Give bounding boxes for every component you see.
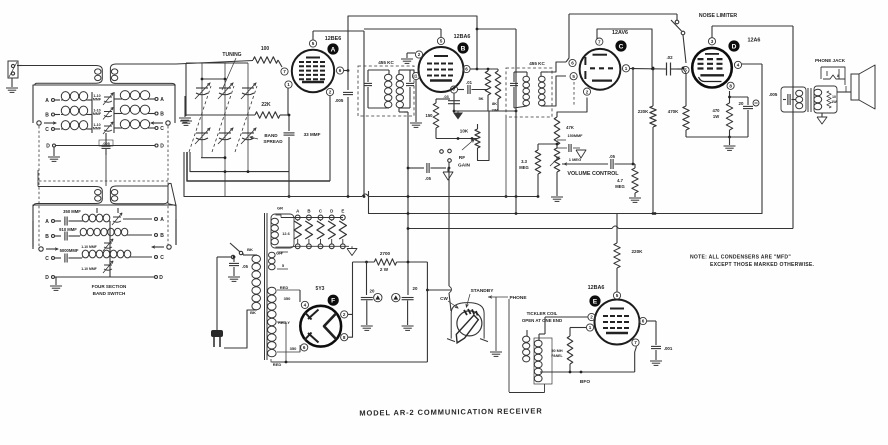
cap .005 mid — [99, 133, 113, 155]
badge F — [328, 295, 339, 306]
bfo box — [534, 338, 552, 384]
tuning cap col3 wire — [247, 63, 249, 172]
arrow ground rfgain — [443, 168, 453, 180]
cap .02 — [666, 55, 682, 76]
svg-text:5000MMF: 5000MMF — [60, 248, 79, 253]
ground V2 cathode — [453, 111, 463, 120]
svg-text:NOTE: ALL CONDENSERS ARE "MFD": NOTE: ALL CONDENSERS ARE "MFD" — [690, 255, 791, 261]
svg-text:E: E — [341, 209, 344, 214]
wire V4 pin4 — [742, 64, 762, 196]
svg-text:6: 6 — [303, 345, 306, 350]
svg-text:455 KC: 455 KC — [529, 61, 545, 66]
cap 150MMF — [557, 134, 583, 154]
bus B+ y227 — [407, 226, 793, 230]
svg-text:B: B — [461, 45, 466, 52]
IF2 primary coil — [514, 72, 530, 108]
cap 350MMF — [45, 209, 82, 226]
wire V2 pin6 — [471, 68, 479, 71]
pin 3 V4 — [708, 38, 715, 45]
pot 1MEG volume — [550, 145, 560, 172]
wire V4 pin3 top — [712, 26, 793, 38]
svg-text:7: 7 — [598, 39, 601, 44]
pin 1 V2 — [412, 72, 419, 79]
svg-text:E: E — [593, 298, 598, 305]
label RED low — [271, 359, 281, 367]
svg-text:455 KC: 455 KC — [378, 60, 394, 65]
wire T2 into oscbox — [97, 208, 118, 213]
label 350 low — [277, 346, 300, 352]
cap .005 plate — [335, 92, 353, 196]
svg-text:1: 1 — [625, 66, 628, 71]
wire top line C to switch — [569, 13, 677, 15]
label CW — [440, 296, 458, 308]
resistor 5K — [478, 69, 490, 111]
heater switch contact B low — [307, 244, 312, 249]
heater resistor D — [328, 220, 335, 244]
rf gain terminals — [440, 149, 452, 169]
wire E pin7 — [635, 347, 637, 373]
heater switch contact C low — [318, 244, 323, 249]
heater resistor B — [305, 220, 312, 244]
label 12AV6 — [612, 30, 628, 36]
pin 1 V6 — [586, 324, 593, 331]
osc coil C — [82, 250, 164, 261]
svg-text:NOISE LIMITER: NOISE LIMITER — [699, 13, 738, 19]
IF2 shield box — [506, 68, 552, 117]
label 12BA6 V2 — [454, 34, 471, 40]
antenna terminal block — [8, 61, 18, 78]
IF1 primary coil — [368, 70, 392, 108]
ground T3 — [817, 113, 827, 124]
svg-text:150MMF: 150MMF — [568, 134, 584, 138]
xfmr T4 HV winding — [268, 287, 277, 357]
svg-text:A: A — [160, 217, 164, 223]
gang link col1 dashed — [189, 86, 211, 152]
badge A — [327, 43, 338, 54]
RF coil B1 — [61, 106, 92, 115]
svg-text:TICKLER COIL: TICKLER COIL — [527, 311, 558, 316]
svg-text:350: 350 — [284, 296, 291, 301]
cap .01 — [458, 80, 488, 94]
variable cap C3a — [241, 83, 256, 99]
wire antenna to T1 — [18, 65, 22, 67]
tuning cap col1 wire — [201, 63, 203, 158]
svg-text:20: 20 — [739, 101, 744, 106]
cap 20 filter 1 — [361, 262, 382, 325]
svg-text:22K: 22K — [261, 102, 271, 108]
resistor 10K rf gain — [436, 111, 489, 161]
svg-text:5K: 5K — [478, 96, 483, 101]
svg-text:BK: BK — [250, 310, 256, 315]
resistor 220K — [638, 67, 656, 214]
label 12A6 — [748, 38, 761, 44]
variable cap C1b — [195, 128, 210, 144]
svg-text:2: 2 — [590, 315, 593, 320]
label Y tap — [277, 250, 288, 255]
svg-text:10K: 10K — [460, 129, 469, 134]
label phone jack — [815, 58, 846, 63]
svg-text:B: B — [307, 209, 310, 214]
cap 910MMF — [45, 227, 80, 241]
wire pin6 V5 — [299, 345, 301, 352]
cap 33MMF — [284, 115, 321, 172]
IF1 sec bottom lead — [399, 108, 408, 295]
svg-text:4: 4 — [304, 303, 307, 308]
tube V6 12BA6 envelope — [595, 300, 640, 345]
wire HV top to pin4 — [299, 290, 301, 302]
svg-text:12A6: 12A6 — [748, 38, 761, 44]
svg-text:910 MMF: 910 MMF — [59, 227, 77, 232]
cap 5000MMF — [45, 248, 82, 263]
wire D cathode bottom — [686, 136, 748, 139]
svg-text:.01: .01 — [466, 80, 472, 85]
RF coil row C left label — [45, 127, 60, 133]
ground vol pot — [551, 172, 563, 201]
svg-text:SPREAD: SPREAD — [263, 139, 283, 144]
heater winding box — [271, 214, 294, 248]
svg-text:C: C — [45, 127, 49, 133]
tube V3 12AV6 envelope — [580, 49, 621, 90]
pin 2 V2 — [415, 51, 422, 58]
svg-text:C: C — [619, 43, 624, 50]
svg-text:2: 2 — [586, 89, 589, 94]
svg-text:1: 1 — [415, 74, 418, 79]
svg-text:8K: 8K — [492, 101, 497, 106]
variable cap C3b — [241, 128, 256, 144]
svg-text:220K: 220K — [638, 109, 649, 114]
svg-text:D: D — [330, 209, 333, 214]
label STANDBY — [466, 288, 494, 307]
wire T1 into box — [0, 0, 1, 1]
svg-text:5: 5 — [312, 41, 315, 46]
svg-text:PANEL: PANEL — [551, 354, 562, 358]
osc interior vertical — [109, 221, 111, 277]
pin 1 V1 — [285, 81, 292, 88]
pin 7 V2 — [450, 86, 457, 93]
wire C pin2 down — [557, 98, 587, 118]
svg-text:.005: .005 — [769, 92, 778, 97]
svg-text:1-10 MMF: 1-10 MMF — [81, 267, 96, 271]
osc coil A — [82, 213, 164, 225]
RF coil row B left label — [45, 113, 60, 119]
wire bplus to switch — [427, 289, 451, 291]
resistor 100 — [253, 46, 282, 67]
title text — [359, 406, 542, 417]
gang link col2 dashed — [212, 86, 234, 152]
IF2 secondary coil — [539, 72, 549, 106]
heater resistor E — [339, 220, 346, 244]
pin 6 V5 — [301, 344, 308, 351]
IF1 shield box — [358, 66, 414, 116]
label RED-Y — [277, 321, 290, 362]
resistor 470 1W — [713, 91, 733, 137]
pin 2 V6 — [588, 313, 595, 320]
svg-text:1W: 1W — [831, 100, 837, 104]
badge C — [615, 40, 626, 51]
svg-text:MMF: MMF — [93, 127, 102, 131]
label PHONE — [488, 295, 527, 301]
tube V2 12BA6 envelope — [419, 47, 464, 92]
label RED tap — [280, 285, 289, 290]
heater resistor C — [317, 220, 324, 244]
IF2 primary cap — [510, 72, 518, 108]
label BFO — [580, 379, 590, 385]
wire V1 pin5 up — [313, 31, 364, 40]
heater switch contact E low — [340, 244, 345, 249]
svg-text:D: D — [45, 275, 49, 281]
ground filter1 — [361, 326, 373, 330]
label 12BA6 V6 — [588, 285, 605, 291]
svg-text:B: B — [160, 112, 164, 118]
tube V5 5Y3 envelope — [300, 306, 341, 347]
svg-text:100: 100 — [261, 46, 270, 52]
wire gang bus y79 — [201, 78, 227, 81]
svg-text:C: C — [160, 126, 164, 132]
pin 6 V2 — [463, 65, 470, 72]
osc coil B — [80, 228, 164, 239]
label volume control — [567, 171, 619, 177]
wire B+ y262 — [353, 261, 428, 264]
heater switch contact A low — [295, 244, 300, 249]
svg-text:C: C — [45, 256, 49, 262]
label band spread — [250, 133, 283, 144]
label noise limiter — [699, 13, 738, 19]
svg-text:D: D — [732, 43, 737, 50]
pin 2 V1 — [326, 88, 333, 95]
wire top rect outer — [348, 16, 477, 90]
svg-text:1 MEG: 1 MEG — [569, 157, 581, 162]
cap .05 line — [217, 256, 249, 276]
wire bfo cathode — [540, 371, 635, 374]
svg-text:6: 6 — [339, 68, 342, 73]
label GR low — [276, 251, 282, 256]
output transformer T3 pri — [796, 90, 803, 109]
RF coil box — [33, 85, 175, 123]
ground line cap — [228, 277, 240, 281]
cap .05 rfgain — [407, 163, 446, 181]
svg-text:RED: RED — [273, 362, 282, 367]
dashed gang line right — [167, 126, 169, 245]
svg-text:6: 6 — [465, 67, 468, 72]
T3 core — [808, 88, 811, 112]
pin 1 V3 — [622, 65, 629, 72]
svg-text:A: A — [160, 97, 164, 103]
cap .001 — [647, 321, 673, 360]
pin 6 V3 — [569, 59, 576, 66]
svg-text:350: 350 — [290, 346, 297, 351]
dashed linkage horizontal — [39, 180, 168, 182]
svg-text:RF: RF — [459, 155, 465, 161]
svg-text:MEG: MEG — [615, 184, 625, 189]
svg-text:2W: 2W — [492, 108, 498, 113]
svg-text:.05: .05 — [609, 154, 615, 159]
resistor 150 — [426, 99, 451, 139]
label RF GAIN — [458, 155, 471, 169]
pin 8 V4 — [727, 82, 734, 89]
variable cap C2a — [218, 83, 233, 99]
xfmr T4 primary — [243, 253, 261, 310]
svg-text:7: 7 — [453, 87, 456, 92]
bus tuning mid — [190, 152, 290, 198]
dashed AVC stub — [573, 82, 575, 106]
svg-text:3: 3 — [711, 39, 714, 44]
svg-text:OPEN AT ONE END: OPEN AT ONE END — [522, 318, 562, 323]
RF coil A1 — [61, 92, 92, 101]
IF1 primary cap — [364, 70, 372, 108]
ground .001 — [650, 361, 662, 365]
cap 20 filter 2 — [392, 286, 418, 325]
IF2 sec leads — [548, 62, 566, 106]
ground right of box — [179, 96, 191, 122]
transformer T2 primary — [34, 170, 103, 206]
svg-text:2: 2 — [329, 90, 332, 95]
heater switch contact D — [329, 209, 334, 220]
label 350 top — [277, 290, 300, 301]
wire standby feed — [426, 262, 429, 362]
svg-text:12AV6: 12AV6 — [612, 30, 628, 36]
wire C pin1 node — [630, 67, 666, 70]
svg-text:.005: .005 — [335, 98, 344, 103]
svg-text:20: 20 — [370, 289, 375, 294]
svg-text:A: A — [45, 98, 49, 104]
resistor 22K — [186, 102, 289, 118]
speaker — [851, 65, 875, 109]
cap .05 av — [609, 154, 634, 169]
badge B — [457, 42, 468, 53]
IF1 secondary cap — [406, 70, 414, 108]
svg-text:BAND SWITCH: BAND SWITCH — [93, 291, 126, 296]
label 12BE6 — [325, 36, 341, 42]
transformer T1 secondary — [110, 61, 253, 86]
svg-text:12BA6: 12BA6 — [588, 285, 605, 291]
pin 7 V6 — [632, 339, 639, 346]
pin 5 V4 — [682, 66, 689, 73]
pin 7 V1 — [281, 68, 288, 75]
heater switch contact D low — [329, 244, 334, 249]
svg-text:A: A — [331, 46, 336, 53]
tube V4 12A6 envelope — [692, 48, 732, 88]
xfmr T4 heater winding taps — [276, 215, 297, 247]
label 455 KC IF2 — [529, 61, 545, 66]
ground V2 pin2 — [401, 53, 415, 63]
bus AVC y196 — [184, 152, 537, 198]
ground switch — [490, 297, 502, 356]
label GR top — [277, 206, 283, 211]
osc row D wire — [45, 275, 163, 281]
wire V3 top rect — [597, 29, 652, 67]
RF coil C2 — [114, 120, 150, 129]
cap .03 cathode — [443, 94, 460, 111]
wire phone down — [508, 299, 510, 392]
ground 4.7meg — [629, 198, 641, 202]
wire top rect inner — [363, 31, 365, 196]
RF coil C1 — [61, 121, 92, 130]
tuning rail left — [185, 63, 187, 116]
ground ant — [6, 78, 18, 92]
label BK low — [250, 310, 256, 315]
variable cap C1a — [195, 83, 210, 99]
svg-text:5: 5 — [572, 74, 575, 79]
resistor 470K — [668, 69, 689, 137]
svg-text:20: 20 — [413, 286, 418, 291]
xfmr T4 5V winding — [269, 252, 289, 270]
heater switch contact B — [307, 209, 312, 220]
phone jack symbol — [821, 67, 845, 85]
svg-text:5Y3: 5Y3 — [316, 286, 325, 292]
wire bfo down — [509, 384, 545, 393]
pin 5 V3 — [570, 73, 577, 80]
heater box coil — [271, 218, 278, 245]
band wiper right lower — [152, 219, 176, 249]
svg-text:BAND: BAND — [264, 133, 278, 138]
resistor 4.7MEG — [615, 164, 638, 197]
IF1 out to grid — [410, 70, 414, 73]
svg-text:C: C — [160, 255, 164, 261]
svg-text:50 MH: 50 MH — [551, 349, 562, 353]
svg-text:B: B — [45, 234, 49, 240]
cap .005 out box — [769, 87, 806, 112]
pin 5 V6 — [613, 292, 620, 299]
svg-text:FOUR SECTION: FOUR SECTION — [92, 284, 127, 289]
band wiper left lower — [33, 221, 58, 251]
badge E — [589, 295, 600, 306]
wire V1 pin6 — [344, 69, 349, 72]
wire E pin2 — [545, 317, 588, 334]
label 455 KC IF1 — [378, 60, 394, 65]
svg-text:MEG: MEG — [519, 165, 529, 170]
rotary switch body — [447, 303, 488, 343]
svg-text:STANDBY: STANDBY — [471, 288, 495, 294]
svg-text:33 MMF: 33 MMF — [304, 132, 321, 137]
AC switch — [230, 243, 253, 259]
xfmr T4 core — [265, 213, 268, 360]
tube V1 12BE6 envelope — [292, 50, 334, 92]
svg-text:3.3: 3.3 — [521, 159, 527, 164]
pin 5 V1 — [309, 40, 316, 47]
wire plate line down — [792, 26, 794, 229]
ground osc D — [50, 277, 62, 290]
svg-text:4: 4 — [737, 63, 740, 68]
svg-text:RED: RED — [280, 285, 289, 290]
svg-text:TUNING: TUNING — [222, 52, 241, 58]
svg-text:47K: 47K — [566, 125, 574, 130]
svg-text:B: B — [160, 233, 164, 239]
RF coil row B right label — [150, 112, 164, 118]
label 50 MH — [551, 349, 562, 358]
wire pin1 down — [288, 88, 291, 116]
gang link col3 dashed — [235, 86, 257, 152]
svg-text:MMF: MMF — [93, 98, 102, 102]
svg-text:7: 7 — [283, 69, 286, 74]
svg-text:12BE6: 12BE6 — [325, 36, 341, 42]
transformer T1 primary — [17, 66, 102, 86]
T3 sec box — [814, 86, 837, 113]
svg-text:PHONE: PHONE — [509, 295, 527, 301]
trimmer cap row C — [93, 122, 113, 134]
RF coil row A left label — [45, 98, 60, 104]
wire V3 left plate — [566, 14, 569, 62]
resistor 10 1W — [827, 91, 838, 108]
label four section band switch — [92, 284, 127, 296]
plug lead 2 — [224, 310, 257, 348]
svg-text:CW: CW — [440, 296, 448, 301]
svg-text:5: 5 — [440, 39, 443, 44]
heater resistor A — [294, 220, 301, 244]
label 5Y3 — [316, 286, 325, 292]
ground filter2 — [402, 326, 414, 330]
svg-text:470K: 470K — [668, 109, 679, 114]
transformer T2 secondary — [110, 183, 176, 205]
